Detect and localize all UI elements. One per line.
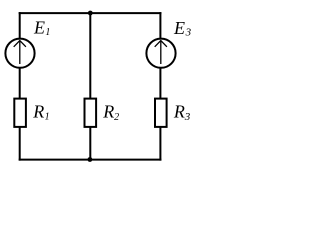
- svg-text:R: R: [32, 102, 44, 122]
- resistor R2: [85, 99, 97, 127]
- svg-text:3: 3: [185, 27, 192, 39]
- EMF source E1: [5, 39, 34, 68]
- label R1: [32, 102, 49, 123]
- svg-text:E: E: [33, 18, 45, 38]
- svg-text:2: 2: [114, 112, 119, 123]
- svg-text:1: 1: [45, 27, 50, 38]
- wire: left branch lower segment: [19, 127, 21, 161]
- wire: left branch middle segment: [19, 68, 21, 99]
- wire: right branch lower segment: [159, 127, 161, 161]
- node: bottom junction: [88, 157, 93, 162]
- wire: right branch upper segment: [159, 12, 161, 39]
- resistor R1: [14, 99, 26, 127]
- wire: middle branch upper segment: [89, 12, 91, 99]
- label R3: [173, 101, 191, 123]
- wire: right branch middle segment: [159, 68, 161, 99]
- label E3: [173, 18, 192, 39]
- svg-text:1: 1: [45, 111, 50, 122]
- node: top junction: [88, 11, 93, 16]
- label R2: [102, 101, 119, 123]
- wire: middle branch lower segment: [89, 127, 91, 161]
- svg-text:R: R: [102, 101, 114, 121]
- svg-text:R: R: [173, 101, 185, 121]
- svg-text:E: E: [173, 18, 185, 38]
- svg-text:3: 3: [184, 111, 191, 123]
- wire: left branch upper segment: [19, 12, 21, 39]
- wire: top rail: [19, 12, 162, 14]
- resistor R3: [155, 99, 167, 127]
- EMF source E3: [146, 39, 175, 68]
- label E1: [33, 18, 50, 38]
- wire: bottom rail: [19, 159, 162, 161]
